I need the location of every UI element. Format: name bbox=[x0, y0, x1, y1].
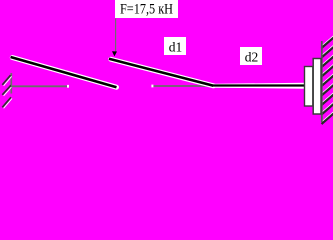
right anchor: tall plate rect bbox=[313, 59, 321, 115]
left support: vertical line bbox=[10, 73, 12, 94]
left support: hatch 3 bbox=[2, 97, 11, 107]
force arrowhead bbox=[112, 51, 117, 56]
horizontal gray bar from left support bbox=[11, 85, 67, 87]
left support: hatch 1 white shadow bbox=[4, 76, 12, 85]
diagonal member 1: white halo bbox=[12, 58, 116, 88]
left support: hatch 2 white shadow bbox=[4, 86, 12, 95]
rod to wall (black) bbox=[214, 84, 306, 86]
left support: hatch 3 white shadow bbox=[4, 98, 12, 108]
white cap left end of middle bar bbox=[151, 85, 153, 88]
diagonal member 1 bbox=[11, 57, 117, 87]
diagonal member 2: white halo bbox=[111, 59, 214, 86]
wall face line (right) bbox=[321, 41, 323, 122]
left support: hatch 1 bbox=[2, 75, 10, 85]
label box d1 bbox=[164, 37, 186, 55]
right wall hatching (white highlights) bbox=[322, 36, 333, 122]
svg-text:d2: d2 bbox=[245, 49, 259, 64]
force arrow shaft bbox=[115, 19, 117, 54]
right anchor: small plate rect bbox=[305, 67, 313, 107]
middle horizontal gray bar bbox=[153, 85, 214, 87]
diagonal member 2 bbox=[109, 59, 214, 86]
left support: hatch 2 bbox=[2, 85, 11, 95]
white cap right end of left bar bbox=[67, 85, 69, 88]
svg-text:F=17,5 кН: F=17,5 кН bbox=[120, 1, 173, 17]
label box F bbox=[115, 0, 178, 18]
label box d2 bbox=[240, 47, 262, 65]
svg-text:d1: d1 bbox=[169, 39, 183, 54]
right wall hatching (dark stripes) bbox=[322, 38, 333, 124]
rod to wall: white halo bbox=[214, 83, 306, 89]
